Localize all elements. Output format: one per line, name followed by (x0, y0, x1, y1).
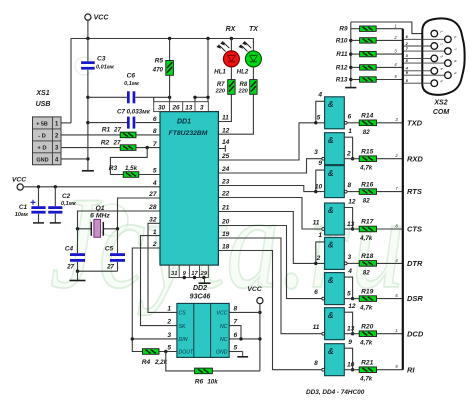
svg-text:VCC: VCC (247, 286, 261, 293)
wire DD1 pin to DD3.3 inputs (218, 186, 324, 192)
svg-text:12: 12 (348, 303, 356, 310)
wire DD4.3 input from R20 (344, 333, 359, 335)
wire DD1 pin27 to crystal right (118, 198, 161, 229)
svg-text:1: 1 (318, 232, 322, 239)
svg-text:1: 1 (167, 305, 171, 312)
gate DD4.1 (DTR) (325, 237, 345, 269)
crystal Q1 6MHz (78, 228, 118, 230)
capacitor C6 (88, 96, 127, 98)
resistor R8 220 (252, 67, 254, 80)
wire R18 to XS2 bus (DTR) (377, 262, 403, 264)
gate DD3.3 (RTS) (325, 166, 345, 198)
svg-text:8: 8 (153, 128, 157, 135)
svg-text:4,7k: 4,7k (359, 165, 373, 172)
svg-text:TXD: TXD (407, 118, 423, 127)
ground symbol XS1/C3 (82, 170, 94, 172)
svg-text:1: 1 (348, 128, 352, 135)
svg-text:13: 13 (347, 221, 355, 228)
wire DD1 pin to DD4.1 inputs (218, 212, 324, 264)
wire DD2 pin7 NC (229, 326, 241, 339)
DD1 bottom pin cells 31 9 17 29 (169, 265, 208, 277)
svg-text:+ 5B: + 5B (36, 121, 48, 127)
svg-text:DD2: DD2 (193, 285, 207, 292)
svg-text:8: 8 (234, 305, 238, 312)
svg-text:Q1: Q1 (95, 205, 104, 212)
svg-text:24: 24 (221, 166, 230, 173)
svg-text:6: 6 (153, 116, 157, 123)
svg-text:+ D: + D (37, 145, 46, 151)
svg-text:82: 82 (363, 269, 370, 276)
wire GND vertical (C3/C6/C7/XS1-gnd net) (87, 97, 89, 170)
svg-text:GND: GND (216, 350, 228, 356)
svg-text:27: 27 (106, 264, 114, 271)
svg-text:20: 20 (221, 219, 230, 226)
wire R20 to XS2 bus (DCD) (377, 333, 403, 335)
svg-text:5: 5 (167, 345, 171, 352)
svg-text:R9: R9 (339, 26, 348, 33)
svg-text:R21: R21 (361, 359, 373, 366)
resistor R16 82 (359, 189, 376, 195)
wire DD2 VCC line (259, 304, 261, 371)
svg-text:2: 2 (152, 241, 157, 248)
svg-text:R11: R11 (336, 51, 348, 58)
wire XS1 GND (61, 158, 88, 160)
wire C4-C5 bottom rail (78, 270, 118, 272)
gate DD3.4 (CTS) (325, 203, 345, 235)
svg-text:6 MHz: 6 MHz (90, 213, 110, 220)
VCC terminal DD2 (257, 298, 263, 304)
VCC terminal top (85, 14, 91, 20)
svg-text:R6: R6 (195, 378, 204, 385)
svg-text:1: 1 (395, 328, 397, 333)
svg-text:R13: R13 (336, 77, 348, 84)
wire DD4.3 input loop (344, 312, 352, 334)
resistor R18 82 (359, 261, 376, 267)
capacitor C3 (87, 39, 89, 62)
wire VCC drop to pins 3/13 (207, 39, 209, 98)
resistor R4 2,2k (143, 349, 160, 355)
resistor R14 82 (359, 120, 376, 126)
svg-text:1: 1 (153, 229, 157, 236)
DD1 top pin cells 30 26 13 3 (154, 102, 209, 112)
svg-text:14: 14 (222, 139, 230, 146)
wire DD3.2 output to DD1 pin (218, 159, 321, 173)
wire pins 3-13 tie (195, 97, 208, 101)
wire DD1 pin2 to DD2 DIN (132, 248, 160, 352)
svg-text:HL2: HL2 (237, 69, 249, 76)
svg-text:DOUT: DOUT (179, 350, 195, 356)
wire VCC stub to rail (87, 20, 89, 38)
wire DD4.3 output to DD1 pin (218, 238, 321, 334)
svg-text:6: 6 (348, 113, 352, 120)
svg-text:26: 26 (171, 104, 180, 111)
svg-text:5: 5 (347, 290, 351, 297)
svg-text:30: 30 (158, 104, 166, 111)
svg-text:6: 6 (234, 332, 238, 339)
resistor R21 4,7k (359, 367, 376, 373)
connector XS1 USB (33, 117, 62, 165)
svg-text:11: 11 (222, 115, 229, 122)
svg-text:4,7k: 4,7k (359, 340, 373, 347)
ground R9-R13 rail (350, 80, 352, 88)
svg-text:27: 27 (113, 127, 121, 134)
svg-text:220: 220 (237, 88, 248, 94)
wire VCC to DD1 pin 4 (23, 186, 160, 188)
svg-text:4,7k: 4,7k (359, 305, 373, 312)
gate DD4.3 (DCD) (325, 308, 345, 340)
wire rail top to XS2 pin1 (351, 22, 431, 34)
wire R9-R13 ground rail (350, 22, 352, 80)
ground DD2 (242, 352, 244, 357)
svg-text:R19: R19 (361, 288, 373, 295)
wire DD3.4 input from R17 (344, 228, 359, 230)
svg-text:4,7k: 4,7k (359, 235, 373, 242)
wire R7 to DD1 pin 11 (218, 94, 231, 121)
svg-text:R5: R5 (155, 58, 164, 65)
svg-text:XS1: XS1 (35, 90, 49, 97)
wire DD3.2 input loop (344, 137, 352, 159)
svg-text:8: 8 (314, 360, 318, 367)
svg-text:470: 470 (152, 67, 164, 74)
svg-text:&: & (328, 347, 334, 356)
resistor R3 1,5k (110, 148, 147, 175)
svg-text:12: 12 (222, 127, 230, 134)
resistor R2 27 (61, 147, 120, 149)
svg-text:R16: R16 (361, 181, 373, 188)
wire DD3.3 output to R16 (347, 191, 359, 193)
svg-text:4: 4 (152, 180, 157, 187)
svg-text:0,01мк: 0,01мк (96, 65, 115, 71)
svg-text:TX: TX (249, 26, 259, 33)
wire DD3.1 input loop (316, 101, 325, 123)
wire DD1 pin28 to crystal left (78, 211, 161, 229)
svg-text:R3: R3 (109, 165, 118, 172)
resistor R7 220 (230, 67, 232, 80)
ground DD1 (204, 278, 206, 284)
svg-text:RXD: RXD (407, 154, 423, 163)
svg-text:C6: C6 (127, 73, 136, 80)
resistor R9 (351, 28, 360, 30)
resistor R15 4,7k (359, 156, 376, 162)
svg-text:C3: C3 (97, 56, 106, 63)
svg-text:DCD: DCD (407, 329, 424, 338)
svg-text:10: 10 (347, 362, 355, 369)
svg-text:- D: - D (38, 133, 46, 139)
wire DD2 pin8 (229, 311, 260, 313)
resistor R20 4,7k (359, 331, 376, 337)
svg-text:11: 11 (313, 220, 320, 227)
svg-text:VCC: VCC (12, 177, 26, 184)
svg-text:DD1: DD1 (177, 119, 191, 126)
XS2 bus line (402, 29, 404, 370)
wire R14 to XS2 bus (TXD) (377, 122, 403, 124)
svg-text:DIN: DIN (179, 337, 188, 343)
svg-text:CTS: CTS (407, 225, 422, 234)
svg-text:5: 5 (234, 345, 238, 352)
node rail junctions (86, 37, 89, 40)
svg-text:27: 27 (148, 191, 157, 198)
connector XS2 COM (DB9 shell) (422, 18, 464, 95)
resistor R5 470 (169, 39, 171, 61)
wire DD1 pin32 to DD2 CS (148, 223, 177, 312)
wire XS1 +5B to VCC rail (61, 122, 71, 124)
svg-text:4,7k: 4,7k (359, 376, 373, 383)
svg-text:&: & (328, 206, 334, 215)
svg-text:4: 4 (317, 91, 322, 98)
svg-text:DSR: DSR (407, 294, 423, 303)
wire DD3.4 input loop (344, 208, 352, 230)
svg-text:12: 12 (348, 199, 356, 206)
wire pin30 stub (153, 97, 155, 101)
wire R21 to XS2 bus (RI) (377, 369, 403, 371)
wire DD4.4 input from R21 (344, 369, 359, 371)
svg-text:27: 27 (113, 139, 121, 146)
wire DD3.1 output to R14 (347, 122, 359, 124)
capacitor C4 27 (77, 229, 79, 253)
wire DD3.3 input loop (316, 170, 325, 192)
svg-text:XS2: XS2 (433, 100, 447, 107)
resistor R13 (349, 78, 352, 81)
svg-text:C2: C2 (62, 193, 71, 200)
gate DD4.4 (RI) (325, 344, 345, 376)
svg-text:RTS: RTS (407, 187, 422, 196)
svg-text:R17: R17 (361, 219, 373, 226)
svg-text:&: & (328, 311, 334, 320)
watermark (50, 57, 406, 316)
svg-text:&: & (328, 100, 334, 109)
svg-text:3: 3 (348, 254, 352, 261)
LED HL1 arrows (217, 42, 229, 52)
svg-text:10k: 10k (207, 378, 218, 385)
wire DD4.4 input loop (344, 348, 352, 370)
DD1 pin14 stub (218, 145, 225, 151)
wire DD4.2 input loop (344, 277, 352, 299)
svg-text:13: 13 (347, 326, 355, 333)
wire DD4.2 input from R19 (344, 298, 359, 300)
capacitor C7 0,033мк (88, 122, 127, 124)
svg-text:C1: C1 (19, 204, 28, 211)
wire top VCC rail (71, 39, 253, 123)
svg-text:USB: USB (36, 101, 51, 108)
capacitor C2 0,1мк (54, 187, 56, 206)
wire R19 to XS2 bus (DSR) (377, 298, 403, 300)
svg-text:GND: GND (36, 157, 48, 163)
gate DD4.2 (DSR) (325, 273, 345, 305)
svg-text:&: & (328, 276, 334, 285)
svg-text:5: 5 (153, 168, 157, 175)
svg-text:R12: R12 (336, 64, 348, 71)
svg-text:R14: R14 (361, 113, 373, 120)
resistor R11 (349, 52, 352, 55)
wire DD2 GND pin (229, 351, 243, 353)
svg-text:9: 9 (318, 160, 322, 167)
svg-text:7: 7 (153, 141, 157, 148)
svg-text:7: 7 (234, 319, 238, 326)
svg-text:25: 25 (221, 153, 230, 160)
wire R15 to XS2 bus (RXD) (377, 158, 403, 160)
resistor R19 4,7k (359, 296, 376, 302)
svg-text:31: 31 (171, 271, 177, 277)
svg-text:R8: R8 (240, 82, 248, 88)
svg-text:RI: RI (407, 365, 415, 374)
wire R16 to XS2 bus (RTS) (377, 191, 403, 193)
svg-text:R4: R4 (142, 359, 151, 366)
wire DD4.2 output to DD1 pin (218, 226, 321, 299)
svg-text:82: 82 (363, 198, 370, 205)
svg-text:C7 0,033мк: C7 0,033мк (117, 109, 151, 116)
svg-text:DTR: DTR (407, 259, 423, 268)
svg-text:HL1: HL1 (214, 69, 226, 76)
svg-text:0,1мк: 0,1мк (124, 81, 140, 87)
svg-text:10мк: 10мк (15, 212, 29, 218)
resistor R17 4,7k (359, 226, 376, 232)
svg-text:0,1мк: 0,1мк (61, 201, 77, 207)
gate DD3.2 (RXD) (325, 133, 345, 165)
svg-text:13: 13 (185, 104, 193, 111)
svg-text:NC: NC (220, 324, 228, 330)
wire DD4.1 output to R18 (347, 262, 359, 264)
ground crystal (77, 271, 79, 280)
svg-text:23: 23 (221, 179, 230, 186)
LED HL2 arrows (239, 42, 251, 52)
svg-text:&: & (328, 241, 334, 250)
svg-text:C5: C5 (105, 246, 114, 253)
svg-text:RX: RX (226, 26, 237, 33)
svg-text:NC: NC (220, 337, 228, 343)
svg-text:8: 8 (348, 182, 352, 189)
svg-text:1,5k: 1,5k (125, 165, 138, 172)
svg-text:VCC: VCC (217, 311, 228, 317)
svg-text:SK: SK (179, 324, 186, 330)
wires XS2 bus to DB9 pins (404, 38, 445, 40)
svg-text:2: 2 (346, 151, 351, 158)
svg-text:2: 2 (316, 255, 321, 262)
svg-text:11: 11 (313, 324, 320, 331)
svg-text:3: 3 (167, 332, 171, 339)
wire DD1 pin to DD3.1 inputs (218, 123, 324, 160)
svg-text:VCC: VCC (94, 15, 110, 22)
LED HL1 (RX) red (230, 39, 232, 51)
wire DD3.2 input from R15 (344, 158, 359, 160)
resistor R10 (349, 39, 352, 42)
capacitor C5 27 (117, 229, 119, 253)
IC DD1 FT8U232BM (160, 112, 218, 266)
svg-text:C4: C4 (65, 246, 74, 253)
svg-text:COM: COM (433, 109, 450, 116)
svg-text:&: & (328, 136, 334, 145)
svg-text:32: 32 (149, 217, 157, 224)
svg-text:82: 82 (363, 129, 370, 136)
svg-text:19: 19 (222, 231, 230, 238)
svg-text:R1: R1 (102, 127, 111, 134)
svg-text:22: 22 (221, 191, 230, 198)
wire R8 to DD1 pin 12 (218, 94, 253, 134)
DB9 pin circles (431, 30, 438, 37)
wire DD3.4 output to DD1 pin (218, 198, 321, 230)
svg-text:R7: R7 (217, 82, 225, 88)
svg-text:9: 9 (348, 339, 352, 346)
svg-text:220: 220 (215, 88, 226, 94)
wire DD2 pin6 NC (229, 338, 260, 340)
VCC terminal left (17, 184, 23, 190)
wire R17 to XS2 bus (CTS) (377, 228, 403, 230)
svg-text:FT8U232BM: FT8U232BM (169, 130, 208, 137)
svg-text:R2: R2 (101, 139, 110, 146)
svg-text:10: 10 (315, 183, 323, 190)
svg-text:R18: R18 (361, 253, 373, 260)
svg-text:18: 18 (222, 244, 230, 251)
resistor R1 27 (61, 134, 120, 136)
svg-text:93C46: 93C46 (190, 294, 211, 301)
svg-text:27: 27 (66, 264, 74, 271)
svg-text:4: 4 (347, 268, 352, 275)
svg-text:21: 21 (221, 205, 230, 212)
resistor R12 (349, 66, 352, 69)
wire DD4.1 input loop (316, 242, 325, 264)
resistor R6 10k (166, 352, 195, 371)
IC DD2 93C46 (177, 303, 229, 357)
svg-text:3: 3 (200, 104, 204, 111)
svg-text:2: 2 (166, 319, 171, 326)
svg-text:5: 5 (317, 115, 321, 122)
svg-text:R20: R20 (361, 323, 373, 330)
svg-text:6: 6 (314, 289, 318, 296)
svg-text:DD3, DD4 - 74HC00: DD3, DD4 - 74HC00 (306, 389, 365, 396)
capacitor C1 10мк (38, 187, 40, 206)
svg-text:R10: R10 (336, 37, 348, 44)
svg-text:R15: R15 (361, 148, 373, 155)
svg-text:&: & (328, 169, 334, 178)
svg-text:CS: CS (179, 311, 187, 317)
LED HL2 (TX) green (245, 51, 261, 67)
wire DD4.4 output to DD1 pin (218, 251, 321, 370)
svg-text:28: 28 (148, 204, 157, 211)
gate DD3.1 (TXD) (325, 97, 345, 129)
svg-text:1: 1 (394, 23, 396, 28)
wire DD1 pin1 to DD2 SK (141, 236, 177, 326)
svg-text:3: 3 (314, 149, 318, 156)
